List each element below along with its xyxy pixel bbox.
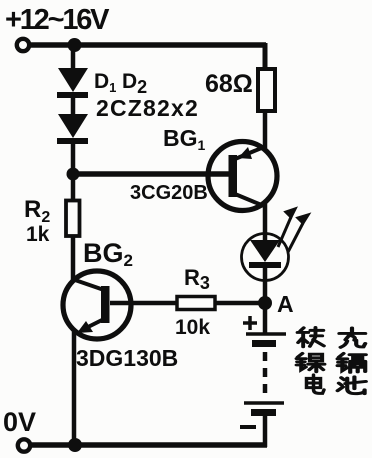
wire R3 to node A — [215, 301, 266, 306]
label battery plus — [243, 316, 257, 330]
label hanzi nie (镍) — [297, 353, 325, 371]
wire BG2 emitter to bottom — [72, 331, 77, 447]
node junction mid-left — [67, 168, 80, 181]
wire right rail top corner — [263, 43, 268, 70]
wire top rail — [29, 42, 266, 48]
wire junction to D1 — [71, 45, 76, 69]
label hanzi bei (被) — [298, 327, 324, 346]
battery cell 1 — [246, 334, 286, 347]
svg-text:10k: 10k — [175, 316, 210, 339]
wire junction to R2 — [71, 174, 76, 200]
wire R2 to BG2 — [71, 235, 76, 280]
transistor Q BG1 — [208, 142, 277, 211]
wire BG2 base to R3 — [110, 301, 178, 306]
wire BG1 collector to LED — [263, 202, 268, 241]
wire D1 to D2 — [71, 98, 76, 115]
LED emission arrows — [278, 209, 308, 252]
label battery minus — [240, 425, 256, 429]
svg-text:+12~16V: +12~16V — [5, 4, 110, 36]
terminal top-left — [17, 39, 29, 51]
wire node A to battery — [263, 303, 268, 333]
battery cell 2 — [244, 403, 284, 416]
terminal bottom-left — [18, 439, 30, 451]
label hanzi ge (镉) — [338, 353, 366, 372]
resistor R2 — [66, 201, 80, 237]
wire BG1 base lead — [73, 171, 230, 177]
wire battery dashed — [263, 352, 268, 399]
resistor 68 ohm — [258, 69, 275, 111]
wire LED to node A — [263, 268, 268, 305]
wire bottom rail — [30, 442, 267, 448]
wire battery to bottom rail — [263, 415, 268, 447]
label hanzi chi (池) — [338, 377, 366, 394]
svg-text:3DG130B: 3DG130B — [76, 345, 178, 371]
svg-text:68Ω: 68Ω — [205, 70, 253, 98]
LED D3 — [242, 234, 289, 281]
node A — [258, 296, 272, 310]
node junction bottom — [68, 438, 82, 452]
svg-text:2CZ82x2: 2CZ82x2 — [96, 95, 199, 121]
diode D1 — [57, 68, 88, 98]
label hanzi dian (电) — [307, 375, 325, 393]
wire 68ohm to BG1 — [263, 111, 268, 150]
resistor R3 — [177, 297, 215, 310]
wire D2 to junction — [71, 144, 76, 176]
svg-text:0V: 0V — [3, 407, 36, 437]
diode D2 — [57, 114, 88, 144]
svg-text:A: A — [277, 291, 294, 317]
svg-text:1k: 1k — [26, 223, 50, 246]
node junction top — [68, 38, 82, 52]
svg-text:3CG20B: 3CG20B — [130, 182, 208, 204]
label hanzi chong (充) — [339, 328, 365, 347]
transistor Q BG2 — [63, 271, 131, 339]
